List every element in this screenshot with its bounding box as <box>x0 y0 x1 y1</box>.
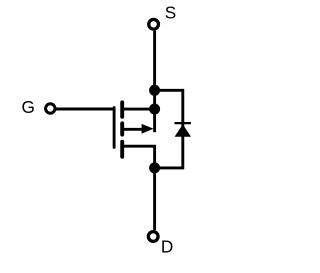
svg-text:G: G <box>22 97 35 117</box>
svg-text:S: S <box>165 2 176 22</box>
svg-text:D: D <box>161 237 173 257</box>
